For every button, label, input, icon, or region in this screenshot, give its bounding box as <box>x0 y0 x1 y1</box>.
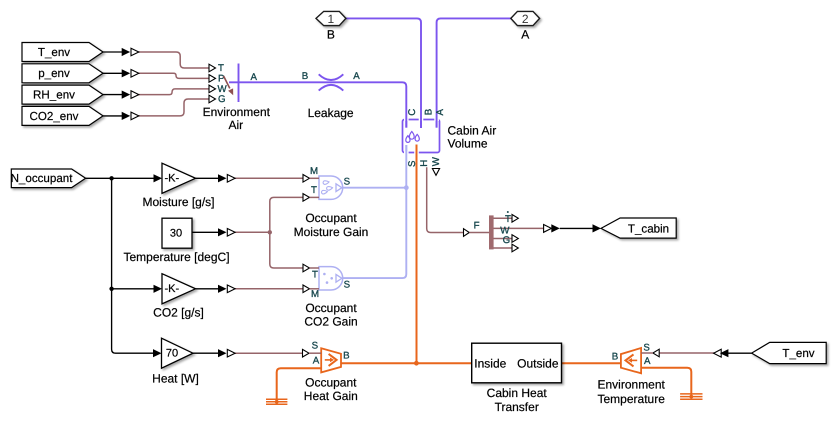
svg-text:M: M <box>310 166 318 177</box>
svg-text:H: H <box>419 160 430 167</box>
droplet icon 1 <box>323 180 329 184</box>
orifice bottom arc <box>319 85 344 91</box>
svg-text:T: T <box>218 63 224 74</box>
Occupant Heat Gain block <box>303 340 358 402</box>
svg-text:S: S <box>344 280 351 291</box>
junction node at N_occupant branch 1 <box>109 176 113 180</box>
svg-text:S: S <box>407 160 418 167</box>
svg-text:N_occupant: N_occupant <box>11 172 74 185</box>
port 4 output <box>494 247 513 249</box>
svg-text:1: 1 <box>328 12 335 26</box>
svg-text:B: B <box>327 27 335 41</box>
arrow into T_cabin <box>593 224 602 232</box>
droplet icon 3 <box>321 190 327 194</box>
ground thermal reference at Occupant Heat Gain <box>266 399 287 404</box>
converter arrows from T_env right <box>714 349 729 357</box>
converter arrows to T_cabin <box>544 224 560 232</box>
wire N_occupant to Moisture gain <box>86 177 154 179</box>
wire PS p_env to Environment Air port P <box>139 73 210 78</box>
port T triangle <box>303 264 310 272</box>
wire PS selector W output to converter <box>494 227 544 229</box>
heat arrow icon mirrored <box>631 359 637 361</box>
svg-text:S: S <box>344 176 351 187</box>
svg-text:A: A <box>521 27 529 41</box>
svg-text:T: T <box>312 269 318 280</box>
svg-text:T: T <box>505 214 511 225</box>
svg-text:-K-: -K- <box>164 173 179 185</box>
svg-text:G: G <box>218 94 226 105</box>
svg-text:CO2 Gain: CO2 Gain <box>304 315 357 329</box>
wire PS Environment Temperature S input <box>659 352 714 354</box>
svg-text:A: A <box>644 356 651 367</box>
constant 30 Temperature [degC] <box>123 218 229 264</box>
svg-text:Moisture Gain: Moisture Gain <box>294 225 369 239</box>
svg-text:Transfer: Transfer <box>495 400 539 414</box>
svg-text:70: 70 <box>166 348 178 360</box>
wire MA Environment Air A to Leakage to Cabin Air Volume port C <box>229 82 406 127</box>
svg-text:Air: Air <box>228 118 243 132</box>
port W triangle <box>209 85 216 93</box>
wire thermal Cabin Air Volume port H down <box>416 145 418 364</box>
wire MAS Occupant Moisture Gain S to volume S junction <box>343 187 406 189</box>
wire PS RH_env to Environment Air port W <box>139 89 210 95</box>
droplet icon 2 <box>415 134 419 141</box>
Cabin Air Volume block <box>403 109 497 176</box>
junction node at N_occupant branch 2 <box>109 287 113 291</box>
svg-text:Leakage: Leakage <box>308 106 354 120</box>
svg-text:Cabin Heat: Cabin Heat <box>487 386 548 400</box>
svg-text:Temperature: Temperature <box>598 392 666 406</box>
output arrow S <box>336 184 342 192</box>
svg-text:Occupant: Occupant <box>305 375 357 389</box>
wire thermal Occupant Heat Gain A to ground <box>277 368 322 402</box>
wire p_env inport to converter <box>103 72 122 74</box>
junction node temperature PS <box>268 230 272 234</box>
orifice top arc <box>319 74 344 80</box>
svg-text:T: T <box>311 185 317 196</box>
svg-text:Heat [W]: Heat [W] <box>152 372 199 386</box>
port S triangle <box>653 349 659 357</box>
svg-text:-K-: -K- <box>164 283 179 295</box>
wire T_cabin link <box>560 227 593 229</box>
wire PS Heat gain to Occupant Heat Gain port S <box>234 352 303 354</box>
wire PS junction up to Occupant Moisture Gain port T <box>270 197 303 232</box>
converter arrows after CO2 gain <box>218 285 235 293</box>
droplet icon 3 <box>406 136 410 143</box>
inport p_env <box>22 64 103 83</box>
gaps in outline at ports <box>404 118 409 121</box>
svg-text:A: A <box>251 72 258 83</box>
hexagon connection port 2 <box>511 11 540 41</box>
svg-text:CO2 [g/s]: CO2 [g/s] <box>153 306 204 320</box>
wire PS T_env to Environment Air port T <box>139 52 210 68</box>
svg-text:W: W <box>431 156 442 166</box>
converter arrows after constant 30 <box>218 228 235 236</box>
svg-text:B: B <box>612 352 618 363</box>
converter arrows after CO2_env <box>122 112 139 120</box>
wire CO2_env inport to converter <box>103 115 122 117</box>
port 3 G output <box>494 238 513 240</box>
svg-text:F: F <box>474 220 480 231</box>
svg-text:T_env: T_env <box>782 347 814 360</box>
wire PS Moisture gain to Occupant Moisture Gain port M <box>234 177 304 179</box>
Leakage block <box>302 71 361 120</box>
svg-text:B: B <box>343 351 349 362</box>
junction node MAS <box>404 185 409 190</box>
gain CO2 [g/s] <box>153 274 204 320</box>
svg-text:Outside: Outside <box>517 356 559 370</box>
converter arrows after p_env <box>122 69 139 77</box>
measurement selector block <box>464 211 519 252</box>
svg-text:Occupant: Occupant <box>305 211 357 225</box>
converter arrows after Moisture gain <box>218 174 235 182</box>
svg-text:Environment: Environment <box>598 377 666 391</box>
wire PS junction down to Occupant CO2 Gain port T <box>270 232 303 268</box>
svg-text:C: C <box>407 109 418 116</box>
port S triangle <box>303 349 310 357</box>
svg-text:B: B <box>302 71 308 82</box>
converter arrows after Heat gain <box>218 349 235 357</box>
converter arrows after RH_env <box>122 91 139 99</box>
wire T_env inport to converter <box>103 51 122 53</box>
heat arrow icon <box>325 359 331 361</box>
svg-text:2: 2 <box>522 12 529 26</box>
wire PS Cabin Air Volume measurement to selector F <box>427 167 464 232</box>
svg-text:Occupant: Occupant <box>305 301 357 315</box>
gain Moisture [g/s] <box>142 163 214 209</box>
svg-text:T_cabin: T_cabin <box>628 222 669 235</box>
svg-text:T_env: T_env <box>38 46 70 59</box>
port M triangle <box>303 175 310 183</box>
wire T_env right link <box>728 352 752 354</box>
unconnected port W marker <box>432 169 439 176</box>
wire RH_env inport to converter <box>103 94 122 96</box>
gain Heat [W] <box>152 338 199 385</box>
droplet icon 2 <box>326 186 332 190</box>
wire Heat gain output to converter <box>193 352 219 354</box>
wire branch down from N_occupant to CO2 gain and Heat gain <box>112 178 154 353</box>
wire Moisture gain output to converter <box>196 177 219 179</box>
ground thermal reference at Environment Temperature <box>680 394 702 399</box>
CO2 dots icon <box>323 273 326 276</box>
svg-text:A: A <box>313 356 320 367</box>
hexagon connection port 1 <box>316 11 346 41</box>
svg-text:A: A <box>435 109 446 116</box>
svg-text:G: G <box>503 235 511 246</box>
port T triangle <box>209 64 216 72</box>
Environment Temperature block <box>598 342 666 406</box>
svg-text:P: P <box>218 73 224 84</box>
svg-text:Volume: Volume <box>448 137 488 151</box>
Cabin Heat Transfer block <box>472 343 562 414</box>
icon diagonal controlled arrow <box>224 76 230 88</box>
svg-text:B: B <box>423 109 434 115</box>
inport N_occupant <box>11 169 86 188</box>
wire Constant 30 output to converter <box>192 231 219 233</box>
port P triangle <box>209 75 216 83</box>
port M triangle <box>303 285 310 293</box>
outport T_cabin <box>601 218 676 238</box>
junction node thermal <box>414 361 419 366</box>
svg-text:30: 30 <box>170 227 182 239</box>
svg-text:p_env: p_env <box>38 67 70 80</box>
inport T_env <box>22 43 103 62</box>
wire MA hexagon port 2 to Cabin Air Volume port A <box>437 18 511 127</box>
converter arrows after T_env <box>122 48 139 56</box>
wire thermal Occupant Heat Gain B to Cabin Heat Transfer Inside <box>341 362 472 364</box>
wire MAS Occupant CO2 Gain S up to Cabin Air Volume port S <box>343 145 406 278</box>
inport T_env right <box>752 342 827 363</box>
svg-text:A: A <box>353 71 360 82</box>
svg-text:S: S <box>643 342 650 353</box>
wire PS CO2_env to Environment Air port G <box>139 99 210 116</box>
port 1 Tdot output <box>494 217 513 219</box>
block outline <box>403 120 440 153</box>
svg-text:S: S <box>312 340 319 351</box>
wire PS Temperature to T junction <box>234 231 270 233</box>
Occupant CO2 Gain block <box>303 264 358 328</box>
svg-text:CO2_env: CO2_env <box>30 110 79 123</box>
wire MA hexagon port 1 to Cabin Air Volume port B <box>346 18 421 128</box>
svg-text:Inside: Inside <box>474 356 506 370</box>
svg-text:RH_env: RH_env <box>33 89 75 102</box>
port G triangle <box>209 95 216 103</box>
svg-text:Temperature [degC]: Temperature [degC] <box>123 250 229 264</box>
svg-text:M: M <box>311 289 319 300</box>
wire PS CO2 gain to Occupant CO2 Gain port M <box>234 288 304 290</box>
wire thermal Cabin Heat Transfer Outside to Environment Temperature B <box>562 362 621 364</box>
port F input triangle <box>464 229 470 237</box>
output arrow S <box>336 274 342 282</box>
droplet icon 1 <box>409 132 414 140</box>
svg-text:Heat Gain: Heat Gain <box>304 389 358 403</box>
Occupant Moisture Gain block <box>294 166 369 239</box>
inport RH_env <box>22 85 103 104</box>
Environment Air block <box>203 63 271 132</box>
wire CO2 gain output to converter <box>196 288 219 290</box>
wire thermal Environment Temperature A to ground <box>641 368 691 397</box>
port stubs re-drawn through gaps <box>405 118 407 128</box>
svg-text:Cabin Air: Cabin Air <box>448 124 497 138</box>
port T triangle <box>303 194 310 202</box>
svg-text:Moisture [g/s]: Moisture [g/s] <box>142 195 214 209</box>
inport CO2_env <box>22 106 103 125</box>
icon vertical reservoir line <box>238 64 240 103</box>
selector bar <box>489 215 494 249</box>
